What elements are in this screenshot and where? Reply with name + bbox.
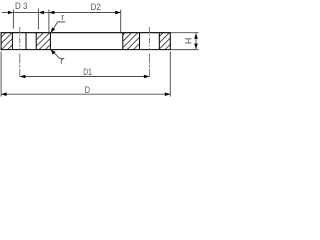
svg-text:r: r [60,56,63,66]
svg-text:D 3: D 3 [15,1,28,11]
svg-text:D1: D1 [83,67,92,77]
svg-text:D: D [85,85,91,95]
svg-text:D2: D2 [91,2,101,12]
svg-text:H: H [184,38,194,45]
svg-text:r: r [61,12,64,22]
